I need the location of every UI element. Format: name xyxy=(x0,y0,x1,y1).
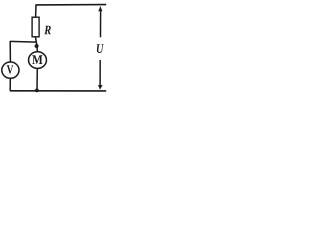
motor M circle xyxy=(29,52,47,69)
label M xyxy=(32,55,42,64)
wire: lead from top rail down to resistor xyxy=(35,5,37,17)
label R xyxy=(44,26,51,35)
wire: left vertical lower xyxy=(9,78,11,90)
wire: top rail xyxy=(35,4,106,6)
wire: junction down to motor xyxy=(36,46,39,52)
wire: bottom rail xyxy=(10,90,106,92)
wire: left vertical upper xyxy=(9,41,11,62)
wire: lead below resistor to junction xyxy=(36,37,38,46)
U arrow: upper shaft xyxy=(100,10,102,38)
node B (junction dot on bottom rail) xyxy=(35,89,39,93)
label V xyxy=(7,65,14,74)
U arrow: lower shaft xyxy=(99,60,101,86)
voltmeter V circle xyxy=(2,62,19,78)
resistor R xyxy=(32,17,39,37)
U arrow: upper head (points up to top rail) xyxy=(98,6,102,11)
background xyxy=(0,0,107,94)
wire: motor down to bottom rail xyxy=(36,68,38,90)
U arrow: lower head (points down to bottom rail) xyxy=(98,85,103,90)
node A (junction dot) xyxy=(35,44,39,48)
wire: middle horizontal xyxy=(10,40,37,43)
label U xyxy=(97,44,104,53)
